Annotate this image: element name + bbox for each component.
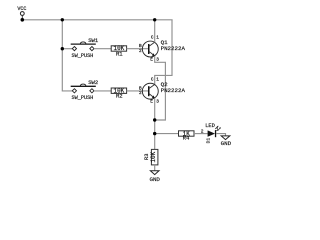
wire SW2 to R2 [94, 90, 111, 92]
svg-text:LED: LED [205, 123, 215, 129]
switch SW2 [71, 79, 99, 101]
ground symbol at R3 [149, 171, 160, 183]
svg-text:2: 2 [201, 129, 204, 135]
svg-text:E: E [150, 57, 153, 62]
LED D1 [205, 123, 221, 143]
svg-text:R1: R1 [116, 50, 123, 57]
svg-text:10K: 10K [150, 151, 157, 162]
svg-text:1: 1 [156, 35, 159, 40]
svg-text:SW2: SW2 [88, 79, 98, 86]
junction dot top rail / Q1 collector [153, 18, 156, 21]
svg-text:SW_PUSH: SW_PUSH [72, 53, 94, 59]
wire Q1 emitter route [155, 56, 166, 120]
wire top rail drop to Q2 collector [155, 20, 172, 85]
wire R3 to GND [154, 165, 156, 171]
switch SW1 [71, 37, 99, 59]
svg-text:PN2222A: PN2222A [161, 45, 186, 52]
svg-text:3: 3 [156, 57, 159, 62]
resistor R4 [179, 130, 195, 141]
power symbol VCC [17, 6, 26, 20]
resistor R3 [143, 149, 158, 165]
svg-text:R3: R3 [143, 153, 150, 160]
wire Q2 emitter down to R3 [154, 98, 156, 149]
svg-text:SW_PUSH: SW_PUSH [72, 95, 94, 101]
junction dot at VCC [21, 18, 25, 22]
wire R4 to LED [194, 133, 208, 135]
svg-text:C: C [151, 35, 154, 40]
svg-text:2: 2 [139, 49, 142, 54]
svg-text:PN2222A: PN2222A [161, 87, 186, 94]
svg-text:2: 2 [139, 91, 142, 96]
svg-text:GND: GND [149, 176, 160, 183]
svg-text:1: 1 [216, 126, 219, 132]
wire LED cathode to GND [216, 134, 225, 136]
wire R1 to Q1 base [127, 48, 149, 50]
wire R2 to Q2 base [127, 90, 149, 92]
svg-text:1: 1 [156, 78, 159, 83]
ground symbol at LED [221, 136, 232, 147]
resistor R1 [111, 45, 126, 57]
wire output node to R4 [155, 133, 179, 135]
wire top rail [22, 19, 172, 21]
wire left rail [62, 20, 72, 91]
svg-text:R4: R4 [183, 135, 190, 142]
wire Q1 collector pin [154, 20, 156, 43]
svg-text:R2: R2 [116, 93, 123, 100]
svg-text:3: 3 [156, 100, 159, 105]
transistor Q1 [139, 35, 185, 62]
resistor R2 [111, 87, 126, 99]
svg-text:C: C [151, 78, 154, 83]
svg-text:SW1: SW1 [88, 37, 99, 44]
junction dot left rail / SW1 branch [61, 47, 64, 50]
svg-text:VCC: VCC [17, 6, 26, 12]
wire SW1 to R1 [94, 48, 111, 50]
junction dot top rail / left rail [61, 18, 64, 21]
svg-text:GND: GND [221, 140, 232, 147]
svg-text:D1: D1 [205, 138, 211, 144]
transistor Q2 [139, 78, 185, 105]
wire left rail to SW1 [62, 48, 72, 50]
svg-text:E: E [150, 100, 153, 105]
junction dot output node [153, 132, 156, 135]
junction dot emitter chain [153, 118, 156, 121]
